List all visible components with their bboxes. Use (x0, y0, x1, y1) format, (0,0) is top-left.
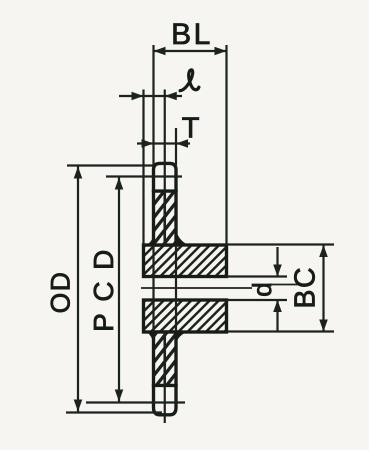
dimension OD: line and arrows (74, 167, 83, 412)
bottom tooth outline (154, 386, 177, 415)
dimension BC: line and arrows (319, 245, 328, 332)
dimension d: two outside segments with arrows (273, 247, 282, 332)
svg-text:PCD: PCD (88, 238, 119, 332)
plate centre seam upper (163, 191, 166, 245)
dimension l: line and outside arrows (119, 92, 182, 101)
hub lower half (hatched section) (144, 300, 227, 332)
extension line: plate right face extended up (T right) (175, 128, 177, 165)
svg-text:BL: BL (171, 18, 213, 51)
OD extension line top (67, 164, 154, 166)
plate right face through lower hub band (175, 300, 177, 332)
dimension PCD: line and arrows (115, 178, 124, 402)
bore top extension line (227, 275, 288, 277)
dimension BL: line and arrows (154, 47, 227, 56)
plate left face through lower hub band (152, 300, 154, 332)
extension line: tooth centre upper (l dim right) (164, 90, 166, 192)
extension line: tooth centre lower (164, 386, 166, 424)
fillet top-left (plate to hub) (145, 236, 154, 246)
dimension T: line and outside arrows (137, 139, 190, 148)
hub top face extension line (227, 243, 335, 245)
plate left face through upper hub band (152, 245, 154, 277)
hub upper half (hatched section) (144, 245, 227, 277)
OD extension line bottom (66, 411, 162, 413)
PCD extension line bottom (86, 401, 185, 403)
fillet bottom-left (plate to hub) (144, 331, 154, 344)
plate centre seam lower (163, 332, 166, 386)
svg-text:T: T (182, 113, 200, 145)
svg-text:d: d (247, 282, 277, 296)
label l (script ell) (180, 70, 199, 91)
top tooth outline (154, 163, 177, 191)
plate right face through upper hub band (175, 245, 177, 277)
plate upper segment (hatched section) (154, 191, 177, 245)
plate lower segment (hatched section) (154, 332, 177, 386)
centerline of bore (right of label d) (268, 284, 299, 286)
extension line: hub left face extended up (l dim left) (142, 90, 144, 246)
fillet top-right (plate to hub) (176, 230, 191, 246)
bore bottom extension line (227, 299, 288, 301)
svg-text:OD: OD (46, 271, 76, 314)
plate left face crossing the bore (152, 277, 154, 301)
fillet bottom-right (plate to hub) (176, 331, 191, 344)
hub bottom face extension line (227, 330, 335, 332)
extension line: hub right face extended up (BL right) (225, 45, 227, 245)
extension line: plate left face extended up (BL left) (152, 45, 154, 165)
svg-text:BC: BC (290, 266, 322, 309)
plate right face crossing the bore (175, 277, 177, 301)
PCD extension line top (106, 175, 182, 177)
centerline of bore (left of label d) (141, 287, 252, 289)
